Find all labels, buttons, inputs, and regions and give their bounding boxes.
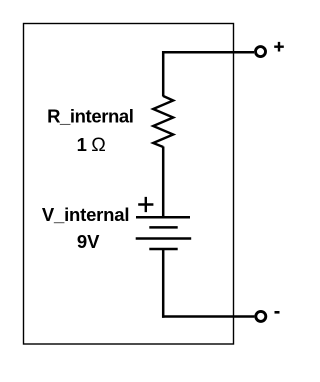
terminal + label: [274, 42, 284, 52]
svg-text:9V: 9V: [77, 231, 100, 252]
terminal - (negative) circle: [256, 311, 266, 321]
svg-text:V_internal: V_internal: [42, 204, 129, 225]
resistor R_internal: [153, 96, 173, 147]
battery V_internal plate long top: [136, 216, 190, 219]
wire: battery to bottom horizontal: [162, 249, 165, 318]
wire: top horizontal from resistor to + terminal: [163, 51, 254, 54]
battery plate long: [136, 237, 192, 240]
terminal + (positive) circle: [256, 47, 266, 57]
battery V_internal plus sign: [138, 197, 153, 212]
terminal - label: [275, 311, 280, 314]
wire: vertical from top wire down to resistor: [162, 51, 165, 97]
battery plate short: [149, 226, 177, 229]
wire: resistor to battery: [162, 147, 165, 217]
battery enclosure box: [24, 24, 234, 345]
svg-text:1 Ω: 1 Ω: [77, 134, 106, 156]
svg-text:R_internal: R_internal: [47, 106, 133, 127]
battery plate short bottom: [149, 248, 177, 251]
wire: bottom horizontal to - terminal: [162, 315, 254, 318]
